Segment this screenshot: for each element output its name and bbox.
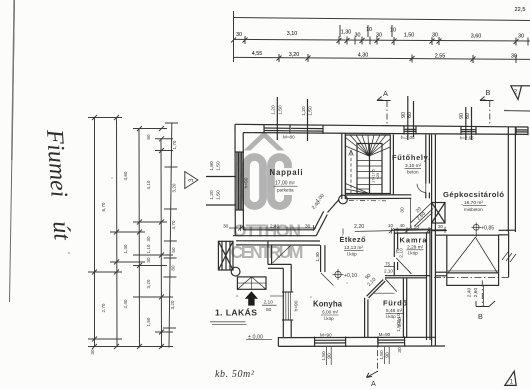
west window flag lower bbox=[206, 204, 236, 206]
svg-text:3,20: 3,20 bbox=[172, 183, 177, 192]
svg-text:+0,10: +0,10 bbox=[344, 273, 357, 279]
svg-text:B: B bbox=[478, 312, 483, 321]
bottom wall left corner bbox=[278, 338, 283, 347]
svg-text:l.köp: l.köp bbox=[408, 251, 418, 256]
watermark letter O bbox=[246, 157, 263, 206]
svg-text:Étkező: Étkező bbox=[340, 235, 366, 244]
vestibule north wall bbox=[236, 241, 320, 245]
apron door line bbox=[447, 271, 499, 273]
svg-text:2,40: 2,40 bbox=[397, 317, 403, 327]
svg-text:75: 75 bbox=[385, 262, 391, 267]
svg-text:1,50: 1,50 bbox=[404, 33, 415, 39]
svg-text:3,60: 3,60 bbox=[471, 34, 482, 40]
entrance arrow bbox=[245, 291, 258, 305]
svg-text:1,50: 1,50 bbox=[146, 317, 151, 326]
kamra door dim bbox=[384, 266, 394, 268]
ground hatch line bbox=[210, 322, 247, 325]
kamra west wall bbox=[394, 229, 397, 276]
kamra north wall bbox=[394, 229, 430, 233]
hall door swing bbox=[321, 273, 334, 286]
stair winder fan top bbox=[346, 135, 391, 156]
svg-text:3,20: 3,20 bbox=[146, 279, 151, 288]
svg-text:4,10: 4,10 bbox=[146, 180, 151, 189]
svg-text:1,10: 1,10 bbox=[146, 244, 151, 253]
svg-text:A: A bbox=[371, 379, 376, 388]
svg-text:1,50: 1,50 bbox=[216, 161, 222, 171]
page edge line bbox=[10, 0, 15, 302]
section A bottom marker bbox=[367, 338, 379, 378]
bottom window 1 bbox=[315, 337, 346, 348]
svg-text:3,10 m²: 3,10 m² bbox=[405, 163, 422, 169]
svg-text:2,70: 2,70 bbox=[101, 303, 106, 312]
garage west wall bbox=[432, 134, 436, 346]
svg-text:beton: beton bbox=[407, 170, 419, 175]
furdo door chord bbox=[374, 292, 395, 294]
svg-text:30: 30 bbox=[432, 33, 438, 39]
apron triangle bbox=[448, 237, 497, 273]
level marker +0,85 bbox=[472, 223, 482, 238]
svg-text:1,50: 1,50 bbox=[308, 106, 314, 116]
svg-text:2,40: 2,40 bbox=[466, 287, 472, 297]
top wall inner bbox=[243, 133, 528, 135]
svg-text:4,70: 4,70 bbox=[171, 220, 176, 229]
svg-text:Gépkocsitároló: Gépkocsitároló bbox=[443, 190, 504, 199]
svg-text:×29: ×29 bbox=[376, 173, 380, 179]
staircase box bbox=[346, 135, 391, 194]
svg-text:50: 50 bbox=[266, 307, 272, 313]
svg-text:1,20: 1,20 bbox=[410, 225, 419, 230]
svg-text:30: 30 bbox=[355, 33, 361, 39]
south dim line bbox=[229, 227, 316, 229]
futohely east wall upper bbox=[426, 134, 430, 183]
svg-text:2,55: 2,55 bbox=[435, 54, 446, 60]
lower dim ticks bbox=[234, 54, 517, 63]
axis dash-dot to kamra bbox=[349, 200, 386, 202]
svg-text:30: 30 bbox=[400, 207, 406, 213]
site strip line 2 bbox=[116, 117, 119, 347]
svg-text:4,60: 4,60 bbox=[123, 171, 128, 180]
vertical tick at 410 bbox=[409, 199, 411, 229]
watermark roof bbox=[244, 131, 285, 151]
watermark letter C bbox=[271, 157, 288, 206]
window Futohely bbox=[404, 126, 416, 135]
svg-text:2,10: 2,10 bbox=[384, 269, 393, 274]
svg-text:1,50: 1,50 bbox=[277, 105, 283, 115]
svg-text:90: 90 bbox=[459, 113, 465, 119]
vestibule south wall bbox=[268, 264, 292, 268]
window Nappali 1 bbox=[264, 125, 290, 134]
stair winder fan bottom bbox=[346, 184, 370, 194]
chimney hatched block bbox=[432, 203, 445, 224]
kamra dim line bbox=[355, 230, 446, 232]
svg-text:l.köp: l.köp bbox=[386, 314, 396, 319]
svg-text:40: 40 bbox=[400, 223, 406, 228]
svg-text:1,50: 1,50 bbox=[216, 190, 222, 200]
svg-text:22,5: 22,5 bbox=[515, 7, 526, 13]
entry door circle bbox=[231, 267, 240, 276]
left wall outer bbox=[234, 124, 236, 236]
nappali south wall outer bbox=[233, 235, 316, 237]
lower dimension line bbox=[233, 57, 530, 59]
svg-text:h=3,05: h=3,05 bbox=[401, 135, 415, 140]
garage right wall bbox=[508, 127, 515, 232]
kamra door leaf bbox=[396, 258, 411, 274]
top wall outer bbox=[235, 124, 528, 127]
window flags garage bbox=[466, 107, 472, 140]
svg-text:60: 60 bbox=[465, 113, 471, 119]
svg-text:Konyha: Konyha bbox=[313, 300, 343, 309]
svg-text:16,70 m²: 16,70 m² bbox=[464, 200, 483, 206]
bottom wall inner bbox=[283, 336, 435, 338]
section B bottom marker bbox=[476, 281, 495, 307]
svg-text:2,10: 2,10 bbox=[264, 300, 274, 306]
stair west wall bbox=[342, 134, 346, 200]
svg-text:2,20: 2,20 bbox=[354, 224, 364, 230]
left wall inner bbox=[242, 133, 244, 230]
west window hatch band bbox=[235, 152, 244, 210]
svg-text:h=90: h=90 bbox=[294, 300, 300, 311]
svg-text:30: 30 bbox=[518, 34, 524, 40]
svg-text:6,70: 6,70 bbox=[101, 202, 106, 211]
furdo door leaf bbox=[385, 279, 397, 292]
triangle 2 leader line bbox=[522, 85, 530, 87]
svg-text:1,70: 1,70 bbox=[172, 140, 177, 149]
south dim ticks bbox=[238, 225, 314, 231]
section B top marker bbox=[480, 97, 494, 125]
stair east wall second line bbox=[392, 134, 394, 194]
apron dim stem bbox=[482, 285, 484, 307]
svg-text:M=80: M=80 bbox=[283, 135, 295, 140]
svg-text:6,00 m²: 6,00 m² bbox=[322, 310, 339, 316]
svg-text:M=90: M=90 bbox=[320, 332, 332, 337]
window Nappali 2 bbox=[291, 126, 323, 135]
svg-text:Fűtőhely.: Fűtőhely. bbox=[392, 153, 430, 162]
furdo chamfer wall bbox=[367, 280, 386, 298]
svg-text:30: 30 bbox=[236, 32, 242, 38]
svg-text:+0,85: +0,85 bbox=[481, 226, 494, 232]
svg-text:1. LAKÁS: 1. LAKÁS bbox=[215, 308, 257, 318]
furdo east wall bbox=[403, 278, 406, 338]
svg-text:1,20: 1,20 bbox=[271, 105, 277, 115]
window flags Futohely bbox=[408, 96, 414, 140]
svg-text:Fürdő: Fürdő bbox=[383, 299, 407, 308]
upper dim flag stems bbox=[339, 25, 341, 37]
triangle marker 2 bbox=[511, 86, 522, 100]
garage apron square bbox=[447, 235, 499, 285]
svg-text:h=2,65: h=2,65 bbox=[460, 136, 474, 141]
svg-text:Kamra: Kamra bbox=[400, 236, 428, 245]
stair inner flight box bbox=[357, 144, 382, 194]
svg-text:17,00 m²: 17,00 m² bbox=[275, 181, 295, 187]
lakas dim ticks bbox=[262, 304, 277, 306]
svg-text:1,30: 1,30 bbox=[341, 30, 352, 36]
cellar stair diagonals bbox=[411, 203, 433, 227]
svg-text:90: 90 bbox=[384, 352, 390, 358]
svg-text:50: 50 bbox=[171, 247, 176, 253]
watermark roof notch bbox=[267, 128, 276, 140]
triangle marker 3 bbox=[185, 172, 198, 189]
svg-text:1,80: 1,80 bbox=[209, 161, 215, 171]
svg-text:l.köp: l.köp bbox=[347, 252, 357, 257]
svg-text:2,40: 2,40 bbox=[270, 224, 280, 230]
svg-text:4,55: 4,55 bbox=[252, 51, 263, 57]
upper dim ticks bbox=[231, 36, 528, 46]
svg-text:2,40: 2,40 bbox=[123, 299, 128, 308]
futohely east wall stub bbox=[426, 193, 430, 199]
right leader line bbox=[504, 110, 530, 113]
svg-text:3: 3 bbox=[188, 178, 195, 182]
stair spine bbox=[369, 144, 371, 194]
window flag Nappali 2 bbox=[307, 99, 309, 141]
level line 0,00 bbox=[246, 339, 272, 341]
diagonal chamfer wall pair bbox=[314, 211, 327, 235]
svg-text:10: 10 bbox=[366, 27, 372, 33]
window right edge bbox=[516, 127, 528, 136]
west exterior wall lower bbox=[283, 264, 291, 337]
svg-text:h=90: h=90 bbox=[244, 177, 250, 188]
svg-text:13,13 m²: 13,13 m² bbox=[344, 245, 363, 251]
upper dimension line bbox=[233, 39, 530, 41]
svg-text:2,60: 2,60 bbox=[473, 287, 479, 297]
svg-text:1,50: 1,50 bbox=[379, 350, 385, 360]
svg-text:30: 30 bbox=[305, 224, 311, 230]
stair walk line bbox=[349, 150, 353, 194]
site strip line 1 bbox=[94, 117, 96, 346]
svg-text:kb. 50m²: kb. 50m² bbox=[215, 369, 255, 380]
svg-text:1,20: 1,20 bbox=[301, 106, 307, 116]
level marker +0,10 bbox=[333, 269, 344, 280]
stair treads bbox=[357, 161, 382, 190]
hall wall pair bbox=[321, 245, 325, 272]
svg-text:30: 30 bbox=[146, 236, 151, 242]
handwritten street name Fiumei ut bbox=[41, 128, 75, 243]
top border line bbox=[233, 18, 530, 21]
svg-text:3,20: 3,20 bbox=[289, 52, 300, 58]
svg-text:± 0,00: ± 0,00 bbox=[248, 335, 263, 341]
svg-text:4,30: 4,30 bbox=[358, 53, 369, 59]
svg-text:30: 30 bbox=[397, 347, 403, 353]
nappali south wall inner bbox=[243, 229, 314, 231]
svg-text:30: 30 bbox=[376, 33, 382, 39]
top strip left vertical bbox=[233, 11, 235, 62]
bottom window 2 bbox=[378, 336, 405, 346]
area underlines bbox=[274, 168, 487, 315]
svg-text:30: 30 bbox=[438, 224, 444, 229]
svg-text:misbeton: misbeton bbox=[464, 207, 483, 212]
svg-text:3,20: 3,20 bbox=[170, 300, 175, 309]
svg-text:1,20: 1,20 bbox=[209, 190, 215, 200]
svg-text:90: 90 bbox=[326, 353, 332, 359]
svg-text:2,10: 2,10 bbox=[399, 248, 405, 258]
bottom window1 flags bbox=[326, 347, 331, 365]
konyha east wall bbox=[365, 298, 368, 338]
garage bottom wall right bbox=[499, 230, 516, 235]
svg-text:l.köp: l.köp bbox=[324, 316, 334, 321]
west window flag upper bbox=[206, 176, 236, 178]
window flag Nappali 1 bbox=[276, 97, 278, 140]
svg-text:A: A bbox=[383, 89, 388, 98]
line5 crossbars bbox=[163, 123, 178, 328]
svg-text:3,10: 3,10 bbox=[287, 31, 298, 37]
svg-text:M=90: M=90 bbox=[379, 332, 391, 337]
svg-text:10: 10 bbox=[390, 28, 396, 34]
bottom window2 flags bbox=[384, 347, 389, 364]
svg-text:80: 80 bbox=[146, 134, 151, 140]
bottom wall outer bbox=[278, 345, 445, 347]
column circle bbox=[339, 195, 348, 204]
svg-text:90: 90 bbox=[401, 112, 407, 118]
strip crossbars with slashes bbox=[88, 115, 173, 349]
diagonal door leaf bbox=[328, 200, 340, 213]
svg-text:30: 30 bbox=[146, 257, 151, 263]
west lower window bbox=[282, 292, 293, 320]
etkezo west wall bbox=[268, 241, 272, 265]
svg-text:1,50: 1,50 bbox=[321, 351, 327, 361]
side gate wall bbox=[435, 272, 446, 276]
footing hatch bbox=[502, 252, 516, 262]
entry steps bbox=[237, 277, 266, 289]
site strip line 4 bbox=[160, 139, 163, 349]
triangle marker 1 bbox=[505, 371, 516, 385]
futohely door arc bbox=[417, 184, 426, 193]
site strip line 3 bbox=[138, 128, 141, 348]
konyha door swing bbox=[273, 246, 291, 263]
svg-text:B: B bbox=[486, 88, 491, 97]
svg-text:1,40: 1,40 bbox=[123, 244, 128, 253]
garage bottom wall left bbox=[432, 231, 447, 236]
small flag line left of window bbox=[270, 295, 284, 297]
svg-text:30: 30 bbox=[90, 349, 95, 355]
svg-text:60: 60 bbox=[407, 112, 413, 118]
furdo north wall bbox=[385, 276, 430, 278]
window garage bbox=[461, 126, 476, 135]
section A top marker bbox=[377, 97, 391, 125]
svg-text:10: 10 bbox=[388, 223, 394, 228]
svg-text:30: 30 bbox=[223, 224, 229, 230]
svg-text:30: 30 bbox=[511, 54, 517, 60]
porch closet hatched bbox=[218, 241, 233, 270]
svg-text:Nappali: Nappali bbox=[270, 168, 303, 177]
kamra east wall bbox=[427, 229, 431, 340]
boundary right vertical bbox=[508, 232, 510, 277]
site strip line 5 bbox=[169, 123, 172, 348]
svg-text:80: 80 bbox=[171, 265, 176, 271]
kamra dim ticks bbox=[343, 227, 445, 235]
stair south wall bbox=[345, 195, 411, 199]
svg-text:1,30: 1,30 bbox=[315, 252, 321, 262]
svg-text:parketta: parketta bbox=[277, 188, 294, 193]
section line B-B dash-dot bbox=[434, 276, 509, 278]
